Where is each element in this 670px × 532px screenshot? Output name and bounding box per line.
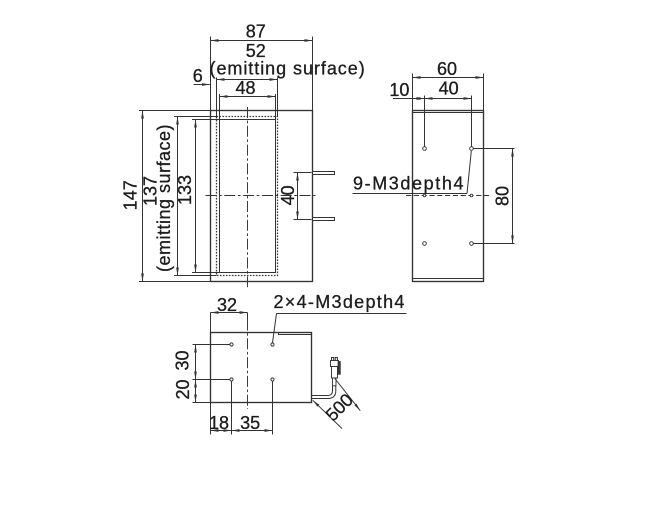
bv hole bottom-left (230, 378, 233, 381)
side view top cap line (413, 112, 484, 114)
dim line 20 (194, 379, 196, 402)
dim line 80 (512, 149, 514, 244)
svg-text:6: 6 (193, 66, 203, 86)
side view body outline (412, 111, 483, 282)
ext line hole col1 (10/40) (424, 96, 426, 147)
connector head (330, 361, 338, 367)
bottom view body outline (210, 332, 311, 402)
ext line body bottom (147) (139, 280, 211, 282)
svg-text:(emitting surface): (emitting surface) (154, 124, 174, 272)
svg-text:80: 80 (493, 186, 513, 206)
ext line bv body left down (18) (209, 402, 211, 434)
hole bottom-left (423, 242, 427, 246)
dim line 35 (231, 429, 272, 431)
ext line inner top (133) (192, 118, 220, 120)
ext line bv left (32) (209, 312, 211, 332)
hole top-left (423, 147, 427, 151)
connector latch (338, 362, 340, 375)
svg-text:60: 60 (437, 59, 457, 79)
front view emitting window dotted rect (216, 116, 277, 275)
ext line window left (52) (216, 77, 218, 116)
dim line 137 (176, 116, 178, 275)
hole bottom-right (470, 242, 474, 246)
leader 9-M3depth4 diagonal (467, 151, 471, 194)
svg-text:(emitting surface): (emitting surface) (210, 58, 366, 78)
ext line hole right top (80) (474, 148, 515, 150)
dim line 52 (217, 78, 278, 80)
ext line window top (137) (174, 115, 217, 117)
dim line 147 (141, 110, 143, 281)
dim 500 line lower (313, 400, 342, 428)
dim line 32 (210, 311, 247, 313)
pin top (313, 171, 335, 174)
side view middle dashed centerline (406, 195, 490, 197)
hole top-right (470, 147, 474, 151)
svg-text:30: 30 (173, 350, 193, 370)
ext line bv bottom (20) (192, 401, 210, 403)
ext line window bottom (137) (174, 274, 217, 276)
svg-text:40: 40 (439, 78, 459, 98)
leader 9-M3depth4 underline (353, 193, 468, 195)
wire outer line (311, 386, 332, 396)
bottom view glass step line (278, 332, 311, 334)
dim line 40 side (425, 98, 472, 100)
bv hole bottom-right (271, 378, 274, 381)
ext line body left (87) (210, 36, 212, 110)
ext line inner left (48) (219, 94, 221, 120)
leader 2x4-M3depth4 diagonal (272, 313, 276, 343)
ext line hole col2 (40) (471, 96, 473, 147)
dim line 60 (413, 77, 484, 79)
connector prong left (331, 358, 333, 361)
dim line 10 tail (393, 98, 413, 100)
front view horizontal centerline (206, 194, 316, 196)
pin bottom (313, 217, 335, 220)
svg-text:10: 10 (389, 80, 409, 100)
dim line 48 (220, 95, 276, 97)
dim line 87 (211, 39, 313, 41)
svg-text:9-M3depth4: 9-M3depth4 (353, 174, 465, 194)
ext line inner bottom (133) (192, 271, 220, 273)
front view body outline (210, 110, 312, 281)
svg-text:20: 20 (173, 379, 193, 399)
connector body (331, 367, 337, 379)
ext line bv hole row1 (30) (192, 343, 230, 345)
svg-text:35: 35 (240, 413, 260, 433)
svg-text:87: 87 (246, 21, 266, 41)
bv hole top-left (230, 343, 233, 346)
ext line window right (52) (277, 77, 279, 116)
dim line 10 (413, 98, 425, 100)
ext line bv hole col2 down (35) (271, 381, 273, 435)
svg-text:40: 40 (278, 185, 298, 205)
leader 2x4-M3depth4 underline (276, 312, 406, 314)
connector neck (332, 378, 336, 386)
wire inner line (311, 386, 335, 399)
dim 500 line upper (335, 379, 361, 411)
ext line inner right (48) (275, 94, 277, 120)
ext line bv hole row2 (30/20) (192, 378, 230, 380)
hole mid-right (470, 194, 473, 197)
front view inner window rect (219, 119, 275, 272)
dim line 30 (194, 344, 196, 379)
svg-text:18: 18 (209, 413, 229, 433)
svg-text:2×4-M3depth4: 2×4-M3depth4 (273, 292, 405, 312)
ext line body right (87) (312, 36, 314, 110)
hole mid-left (423, 194, 426, 197)
connector prong right (335, 358, 337, 361)
dim line 40 pins (297, 172, 299, 219)
svg-text:48: 48 (235, 78, 255, 98)
dim line 6 leader arrow (194, 83, 210, 85)
bottom view vertical centerline (246, 319, 248, 409)
svg-text:32: 32 (217, 295, 237, 315)
ext line pin top (40) (294, 171, 312, 173)
ext line side right (60) (483, 74, 485, 111)
ext line side left (60) (412, 74, 414, 111)
ext line hole right bottom (80) (474, 243, 515, 245)
side view bottom cap line (412, 278, 483, 280)
ext line body top (147) (139, 109, 211, 111)
svg-text:133: 133 (175, 175, 195, 205)
front view vertical centerline (246, 107, 248, 289)
bv hole top-right (271, 343, 274, 346)
svg-text:147: 147 (121, 180, 141, 210)
dim line 18 (210, 429, 231, 431)
ext line pin bottom (40) (294, 218, 312, 220)
ext line bv hole col1 down (18/35) (230, 381, 232, 435)
dim line 133 (194, 119, 196, 272)
ext line bv center (32) (246, 312, 248, 319)
